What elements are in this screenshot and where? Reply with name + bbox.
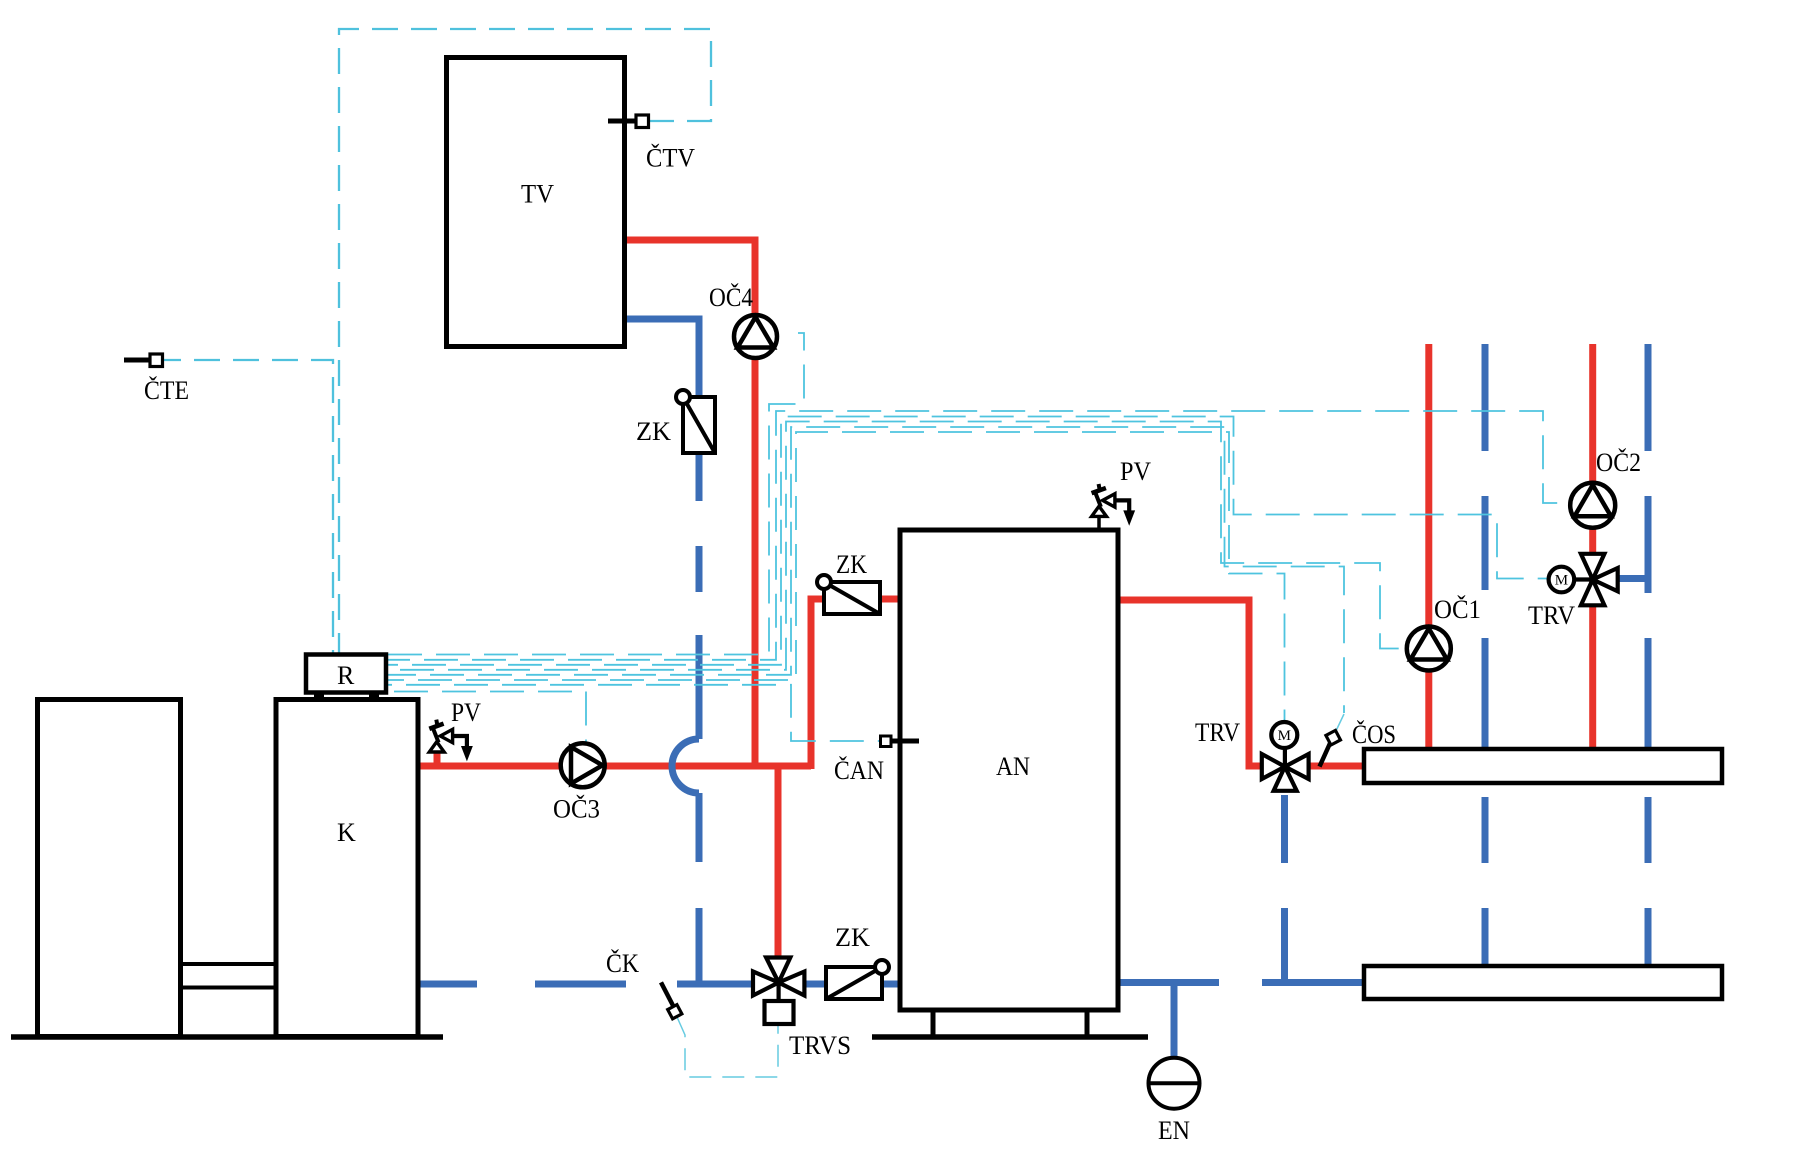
- svg-text:EN: EN: [1158, 1116, 1190, 1145]
- chimney: [38, 700, 181, 1037]
- svg-text:K: K: [337, 818, 356, 847]
- svg-text:ČTE: ČTE: [144, 376, 189, 405]
- safety valve PV2: [1092, 484, 1135, 524]
- wire red ZK2 to AN: [879, 596, 901, 603]
- wire red AN outlet: [1118, 600, 1261, 766]
- wire red riser to ZK2: [811, 599, 824, 769]
- svg-text:AN: AN: [996, 752, 1030, 781]
- wire blue AN bottom outlet: [1118, 979, 1364, 986]
- svg-text:ČK: ČK: [606, 949, 639, 978]
- control loop CK to TRVS: [677, 1017, 778, 1077]
- wire blue EN drop: [1171, 983, 1178, 1058]
- svg-text:TRV: TRV: [1195, 718, 1240, 747]
- svg-text:ZK: ZK: [636, 417, 671, 446]
- control line R to OC4: [388, 333, 804, 655]
- sensor CTE: [124, 354, 163, 367]
- wire blue below hop: [696, 793, 703, 987]
- svg-text:ČOS: ČOS: [1352, 720, 1396, 749]
- wire red boiler main: [417, 763, 811, 770]
- switch COS: [1320, 730, 1341, 766]
- svg-text:M: M: [1278, 728, 1291, 744]
- control line R to TRV-L motor: [388, 432, 1285, 722]
- regulator R: [306, 655, 386, 698]
- valve TRVS: [753, 958, 804, 1025]
- ground line under AN: [872, 1034, 1148, 1040]
- svg-text:TRVS: TRVS: [789, 1031, 851, 1060]
- wire blue TV return top: [624, 319, 699, 398]
- wire blue riser1 lower: [1482, 797, 1489, 966]
- ground line: [11, 1034, 443, 1040]
- svg-text:OČ1: OČ1: [1434, 595, 1481, 624]
- wire blue boiler return main: [417, 981, 901, 988]
- flue duct: [181, 964, 274, 988]
- boiler K: [276, 700, 418, 1037]
- accumulator AN: [900, 530, 1118, 1010]
- wire blue TRV-L bottom: [1281, 795, 1288, 986]
- radiator 1: [1364, 749, 1722, 783]
- control line R to CAN: [388, 685, 881, 741]
- control line R to OC2: [388, 411, 1569, 660]
- svg-text:OČ4: OČ4: [709, 283, 753, 312]
- pump OC1: [1407, 627, 1451, 671]
- svg-text:PV: PV: [1120, 457, 1151, 486]
- svg-text:M: M: [1555, 573, 1568, 589]
- safety valve PV1: [429, 720, 472, 760]
- svg-text:PV: PV: [451, 698, 481, 727]
- wire red drop to TRVS: [775, 766, 782, 957]
- pump OC3: [561, 743, 605, 787]
- wire red PV stub: [434, 750, 441, 766]
- valve ZK2: [817, 575, 880, 614]
- control line R to TRV-R motor: [388, 417, 1548, 665]
- svg-text:ČTV: ČTV: [646, 144, 695, 173]
- valve ZK1: [676, 390, 715, 453]
- wire red TRV-L to radiator1: [1308, 763, 1364, 770]
- svg-text:ZK: ZK: [836, 550, 867, 579]
- wire blue below ZK1 dashes: [696, 453, 703, 739]
- wire blue riser2 lower: [1645, 797, 1652, 966]
- control line R to OC3: [388, 692, 586, 744]
- pump OC4: [734, 315, 777, 358]
- pump OC2: [1570, 483, 1615, 528]
- wire red TV supply: [624, 240, 755, 763]
- control line R to COS: [388, 427, 1344, 713]
- radiator 2: [1364, 966, 1722, 999]
- sensor CAN: [881, 736, 920, 747]
- switch CK: [661, 982, 682, 1018]
- control line CTV to R: [339, 29, 711, 654]
- tank TV: [447, 58, 625, 347]
- wire red riser OC2: [1589, 344, 1596, 750]
- wire blue TRV-R connection: [1617, 575, 1648, 582]
- wire blue hop over red: [672, 739, 699, 793]
- control stub COS: [1335, 714, 1344, 733]
- valve TRV-R with motor M: [1549, 554, 1618, 606]
- control line R to OC1: [388, 422, 1406, 670]
- expansion vessel EN: [1149, 1058, 1200, 1109]
- svg-text:TV: TV: [521, 180, 554, 209]
- svg-text:OČ3: OČ3: [553, 795, 600, 824]
- svg-text:R: R: [337, 661, 355, 690]
- svg-text:TRV: TRV: [1528, 601, 1575, 630]
- valve TRV-L with motor M: [1262, 722, 1309, 791]
- svg-text:ČAN: ČAN: [834, 756, 884, 785]
- wire red riser OC1: [1425, 344, 1432, 750]
- control line CTE to R: [163, 360, 333, 654]
- stub PV2: [1097, 517, 1101, 530]
- svg-text:ZK: ZK: [835, 923, 870, 952]
- svg-text:OČ2: OČ2: [1596, 448, 1641, 477]
- wire blue riser1 upper: [1482, 344, 1489, 750]
- AN pedestal: [933, 1010, 1087, 1037]
- valve ZK3: [826, 960, 889, 999]
- sensor CTV: [608, 115, 649, 128]
- wire blue riser2 upper: [1645, 344, 1652, 750]
